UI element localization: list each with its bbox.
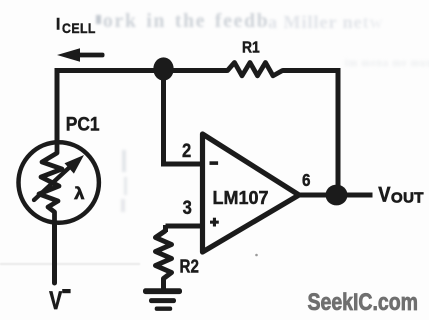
svg-text:PC1: PC1: [66, 112, 100, 134]
svg-text:λ: λ: [74, 184, 85, 203]
resistor R1: [228, 63, 283, 76]
svg-text:3: 3: [183, 197, 192, 219]
wire top horizontal right segment: [283, 68, 341, 73]
ghost faint squiggles near center-left: [122, 150, 126, 172]
tiny stray dot: [255, 254, 258, 257]
wire pin2: from top junction down and right: [161, 70, 204, 164]
wire right vertical: [336, 68, 341, 195]
op-amp plus sign (pin3 input): [210, 218, 219, 227]
svg-text:I: I: [56, 15, 61, 33]
svg-text:V: V: [378, 183, 391, 207]
svg-text:SeekIC.com: SeekIC.com: [308, 289, 419, 316]
resistor R2: [156, 231, 172, 289]
wire pin3 horizontal: [166, 225, 205, 232]
Icell arrow: [57, 48, 80, 62]
op-amp U1 triangle: [203, 134, 300, 252]
svg-text:2: 2: [182, 140, 191, 162]
ghost bleed-through text line (mirrored): [103, 11, 269, 33]
ghost faint horizontal line: [0, 263, 140, 265]
photocell arrow head: [65, 155, 85, 174]
ghost dark small mark at left: [96, 15, 101, 24]
svg-text:CELL: CELL: [62, 20, 96, 36]
svg-text:6: 6: [302, 170, 311, 190]
svg-text:LM107: LM107: [213, 188, 269, 208]
op-amp minus sign (pin2 input): [210, 161, 219, 165]
ghost fade overlay: [352, 6, 429, 42]
svg-text:R1: R1: [242, 38, 260, 56]
photocell PC1 circle: [19, 142, 99, 222]
ground symbol: [143, 288, 182, 311]
junction node at output: [326, 185, 348, 206]
junction node at top (Icell / R1 / pin2): [153, 57, 173, 80]
svg-text:R2: R2: [180, 256, 199, 277]
svg-text:OUT: OUT: [391, 190, 424, 207]
photocell internal zigzag: [39, 143, 62, 222]
ghost faint small text: [345, 58, 429, 69]
photocell arrow shaft: [34, 165, 72, 200]
wire top horizontal left segment: [55, 68, 228, 73]
wire photocell bottom to V-: [52, 222, 57, 283]
svg-text:V: V: [49, 286, 62, 314]
wire left vertical: [55, 68, 60, 150]
wire output to Vout: [299, 193, 373, 198]
